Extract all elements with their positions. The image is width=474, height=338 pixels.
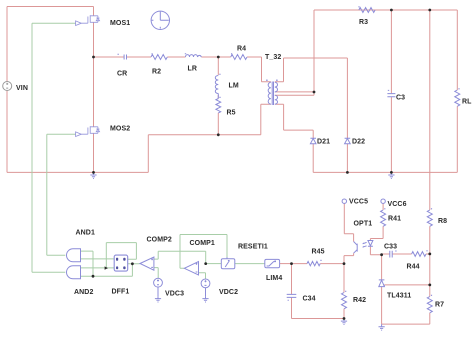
svg-text:D21: D21 [317,138,330,145]
svg-text:CR: CR [117,70,127,77]
svg-text:R41: R41 [388,216,401,223]
svg-text:DFF1: DFF1 [112,288,130,295]
svg-text:LM: LM [229,83,239,90]
svg-text:C33: C33 [384,244,397,251]
svg-text:C34: C34 [303,296,316,303]
svg-text:R8: R8 [438,218,447,225]
svg-text:R42: R42 [353,297,366,304]
svg-text:COMP2: COMP2 [147,236,172,243]
svg-text:R2: R2 [152,68,161,75]
svg-text:R5: R5 [227,110,236,117]
svg-text:MOS2: MOS2 [110,126,130,133]
svg-text:R3: R3 [359,19,368,26]
svg-text:AND1: AND1 [76,230,95,237]
svg-text:VDC3: VDC3 [165,290,184,297]
svg-text:VIN: VIN [16,85,28,92]
svg-text:R44: R44 [407,263,420,270]
svg-text:LR: LR [188,66,198,73]
svg-text:VCC6: VCC6 [388,201,407,208]
svg-text:T_32: T_32 [265,54,281,61]
svg-text:RESETI1: RESETI1 [238,243,268,250]
svg-text:MOS1: MOS1 [110,20,130,27]
svg-text:RL: RL [462,98,472,105]
svg-text:R45: R45 [312,248,325,255]
svg-text:LIM4: LIM4 [266,275,282,282]
svg-text:AND2: AND2 [74,289,93,296]
svg-text:OPT1: OPT1 [354,220,373,227]
svg-text:COMP1: COMP1 [190,240,215,247]
svg-text:VCC5: VCC5 [349,198,368,205]
svg-text:VDC2: VDC2 [219,289,238,296]
svg-text:R4: R4 [237,45,246,52]
svg-text:TL4311: TL4311 [387,293,411,300]
svg-text:D22: D22 [352,138,365,145]
svg-text:C3: C3 [396,95,405,102]
svg-text:R7: R7 [435,302,444,309]
